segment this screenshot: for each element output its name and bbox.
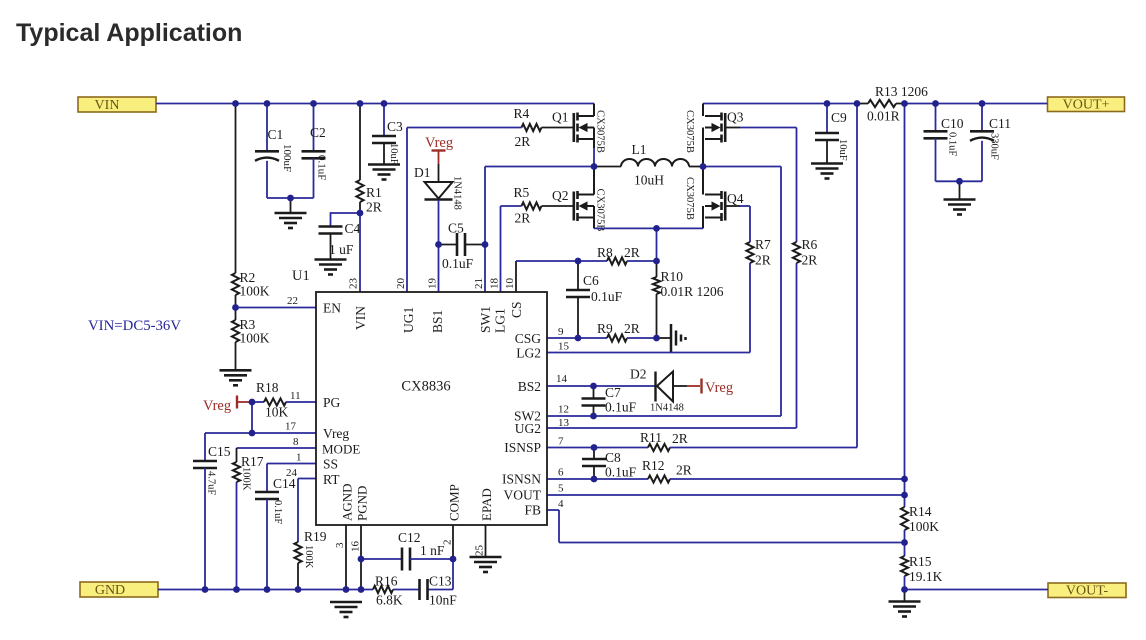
wire Vreg pin17 net bbox=[205, 402, 316, 433]
svg-text:MODE: MODE bbox=[322, 442, 360, 457]
resistor R5 bbox=[522, 202, 542, 209]
svg-text:PGND: PGND bbox=[355, 486, 370, 521]
svg-text:1: 1 bbox=[296, 452, 302, 464]
svg-text:R8: R8 bbox=[597, 245, 613, 260]
capacitor C8 bbox=[593, 448, 595, 460]
svg-text:0.01R 1206: 0.01R 1206 bbox=[661, 284, 724, 299]
svg-text:13: 13 bbox=[558, 417, 570, 429]
ground below C3 bbox=[368, 163, 400, 166]
svg-text:VIN: VIN bbox=[95, 98, 120, 113]
svg-text:2: 2 bbox=[442, 540, 454, 546]
wire VIN rail bbox=[156, 103, 594, 105]
svg-text:16: 16 bbox=[350, 541, 362, 553]
terminal VOUT- bbox=[1048, 583, 1126, 598]
ground below AGND bbox=[330, 601, 362, 604]
svg-text:0.01R: 0.01R bbox=[867, 109, 900, 124]
svg-text:2R: 2R bbox=[515, 134, 531, 149]
svg-text:R11: R11 bbox=[640, 430, 662, 445]
svg-text:VIN=DC5-36V: VIN=DC5-36V bbox=[88, 318, 181, 334]
svg-text:C2: C2 bbox=[310, 125, 326, 140]
svg-text:CX3075B: CX3075B bbox=[684, 177, 695, 220]
wire SS pin1 net bbox=[267, 464, 316, 493]
ground below C9 bbox=[811, 162, 843, 165]
resistor R7 bbox=[749, 206, 751, 242]
svg-text:D1: D1 bbox=[414, 165, 431, 180]
svg-text:EN: EN bbox=[323, 301, 341, 316]
svg-text:1N4148: 1N4148 bbox=[650, 403, 684, 414]
svg-text:R14: R14 bbox=[909, 504, 932, 519]
wire C1-C2 ground link bbox=[267, 197, 314, 199]
svg-text:14: 14 bbox=[556, 373, 568, 385]
svg-text:VOUT-: VOUT- bbox=[1066, 583, 1109, 598]
svg-text:23: 23 bbox=[348, 278, 360, 290]
svg-text:BS2: BS2 bbox=[518, 379, 541, 394]
svg-text:Q1: Q1 bbox=[552, 110, 569, 125]
svg-text:100K: 100K bbox=[240, 284, 270, 299]
svg-text:Q3: Q3 bbox=[727, 110, 744, 125]
wire VOUT+ rail bbox=[703, 103, 1048, 105]
svg-text:19.1K: 19.1K bbox=[909, 569, 943, 584]
svg-text:11: 11 bbox=[290, 390, 301, 402]
inductor L1 10uH bbox=[594, 166, 621, 168]
svg-text:R1: R1 bbox=[366, 185, 382, 200]
resistor R16 6.8K bbox=[373, 586, 393, 593]
resistor R6 bbox=[796, 128, 798, 243]
svg-text:18: 18 bbox=[489, 278, 501, 290]
svg-text:PG: PG bbox=[323, 395, 341, 410]
wire GND rail bbox=[158, 559, 453, 590]
svg-text:LG2: LG2 bbox=[516, 346, 541, 361]
wire UG1 net pin20 bbox=[407, 128, 522, 293]
svg-text:10K: 10K bbox=[265, 405, 289, 420]
resistor R13 0.01R 1206 bbox=[857, 103, 868, 105]
capacitor C7 bbox=[593, 386, 595, 399]
svg-text:R19: R19 bbox=[304, 529, 327, 544]
svg-text:10uF: 10uF bbox=[388, 143, 399, 165]
transistor Q4 CX3075B bbox=[705, 191, 725, 221]
wire VOUT- rail bbox=[905, 589, 1049, 591]
svg-text:C10: C10 bbox=[941, 116, 964, 131]
wire AGND pin3 bbox=[345, 525, 347, 590]
svg-text:0.1uF: 0.1uF bbox=[605, 465, 637, 480]
wire shunt top link bbox=[656, 228, 658, 261]
svg-text:FB: FB bbox=[524, 503, 541, 518]
svg-text:8: 8 bbox=[293, 436, 299, 448]
svg-text:0.1uF: 0.1uF bbox=[947, 132, 958, 156]
capacitor C15 bbox=[204, 433, 206, 461]
svg-text:100K: 100K bbox=[240, 331, 270, 346]
svg-text:C6: C6 bbox=[583, 273, 599, 288]
resistor R11 bbox=[648, 444, 670, 451]
capacitor C13 10nF bbox=[418, 579, 421, 600]
svg-text:RT: RT bbox=[323, 472, 340, 487]
wire LG1 net pin18 bbox=[501, 206, 522, 292]
svg-text:6.8K: 6.8K bbox=[376, 593, 403, 608]
svg-text:Vreg: Vreg bbox=[203, 398, 231, 414]
transistor Q1 CX3075B bbox=[574, 113, 594, 143]
svg-text:C12: C12 bbox=[398, 530, 421, 545]
svg-text:2R: 2R bbox=[802, 253, 818, 268]
wire D1 to BS1 node bbox=[438, 200, 440, 245]
svg-text:20: 20 bbox=[395, 278, 407, 290]
svg-text:Typical Application: Typical Application bbox=[16, 19, 242, 47]
svg-text:VOUT: VOUT bbox=[504, 488, 542, 503]
svg-text:2R: 2R bbox=[672, 431, 688, 446]
svg-text:10nF: 10nF bbox=[429, 593, 457, 608]
svg-text:R4: R4 bbox=[514, 106, 530, 121]
svg-text:UG2: UG2 bbox=[515, 421, 541, 436]
wire ISNSP pin7 net bbox=[547, 447, 648, 449]
svg-text:100K: 100K bbox=[241, 467, 252, 491]
wire MODE pin8 net bbox=[237, 447, 317, 449]
wire FB pin4 net bbox=[547, 510, 905, 543]
svg-text:Q4: Q4 bbox=[727, 191, 744, 206]
svg-text:ISNSN: ISNSN bbox=[502, 472, 541, 487]
capacitor C6 bbox=[577, 261, 579, 290]
svg-text:AGND: AGND bbox=[340, 483, 355, 521]
svg-text:C7: C7 bbox=[605, 385, 621, 400]
wire CS pin10 net bbox=[515, 261, 517, 292]
capacitor C11 330uF bbox=[981, 104, 983, 132]
svg-text:0.1uF: 0.1uF bbox=[316, 155, 328, 180]
svg-text:R16: R16 bbox=[375, 574, 398, 589]
resistor R14 100K bbox=[904, 495, 906, 507]
wire ISNSN pin6 net bbox=[547, 478, 648, 480]
ground below R15 bbox=[904, 590, 906, 602]
resistor R2 bbox=[235, 104, 237, 274]
transistor Q3 CX3075B bbox=[705, 113, 725, 143]
capacitor C3 bbox=[383, 104, 385, 137]
svg-text:6: 6 bbox=[558, 467, 564, 479]
svg-text:LG1: LG1 bbox=[493, 308, 508, 333]
svg-text:VOUT+: VOUT+ bbox=[1063, 97, 1110, 112]
svg-text:2R: 2R bbox=[755, 253, 771, 268]
svg-text:Vreg: Vreg bbox=[705, 380, 733, 396]
svg-text:100K: 100K bbox=[909, 519, 939, 534]
svg-text:SW1: SW1 bbox=[478, 306, 493, 333]
wire COMP pin2 bbox=[452, 525, 454, 559]
svg-text:3: 3 bbox=[334, 542, 346, 548]
resistor R10 0.01R bbox=[656, 261, 658, 277]
svg-text:10uF: 10uF bbox=[837, 139, 848, 161]
diode D2 1N4148 bbox=[654, 372, 656, 402]
svg-text:10: 10 bbox=[504, 278, 516, 290]
svg-text:1 uF: 1 uF bbox=[329, 242, 354, 257]
svg-text:CX3075B: CX3075B bbox=[595, 189, 606, 232]
svg-text:2R: 2R bbox=[515, 211, 531, 226]
svg-text:4: 4 bbox=[558, 498, 564, 510]
svg-text:5: 5 bbox=[558, 483, 564, 495]
svg-text:D2: D2 bbox=[630, 367, 647, 382]
svg-text:15: 15 bbox=[558, 341, 570, 353]
svg-text:R7: R7 bbox=[755, 237, 771, 252]
svg-text:C11: C11 bbox=[989, 116, 1011, 131]
svg-text:C15: C15 bbox=[208, 444, 231, 459]
wire PGND pin16 bbox=[360, 525, 362, 590]
svg-text:1N4148: 1N4148 bbox=[452, 176, 463, 210]
transistor Q2 CX3075B bbox=[574, 191, 594, 221]
ground below R3 bbox=[220, 369, 252, 372]
wire UG2 pin13 net bbox=[547, 427, 797, 429]
svg-text:330uF: 330uF bbox=[989, 133, 1000, 160]
svg-text:CX3075B: CX3075B bbox=[684, 110, 695, 153]
svg-text:10uH: 10uH bbox=[634, 173, 664, 188]
svg-text:R9: R9 bbox=[597, 321, 613, 336]
svg-text:Vreg: Vreg bbox=[425, 135, 453, 151]
svg-text:C9: C9 bbox=[831, 110, 847, 125]
capacitor C14 bbox=[255, 491, 279, 494]
op-amp U1 CX8836 IC body bbox=[316, 292, 547, 525]
svg-text:R15: R15 bbox=[909, 554, 932, 569]
svg-text:12: 12 bbox=[558, 404, 569, 416]
svg-text:Vreg: Vreg bbox=[323, 426, 349, 441]
svg-text:R18: R18 bbox=[256, 380, 279, 395]
svg-text:19: 19 bbox=[427, 278, 439, 290]
terminal VOUT+ bbox=[1048, 97, 1125, 112]
svg-text:COMP: COMP bbox=[447, 484, 462, 521]
diode D1 1N4148 bbox=[438, 164, 440, 182]
wire VOUT sense column bbox=[904, 104, 906, 496]
svg-text:0.1uF: 0.1uF bbox=[442, 256, 474, 271]
terminal VIN bbox=[78, 97, 156, 112]
svg-text:CSG: CSG bbox=[515, 331, 542, 346]
svg-text:EPAD: EPAD bbox=[479, 488, 494, 521]
svg-text:2R: 2R bbox=[624, 321, 640, 336]
resistor R8 bbox=[578, 260, 607, 262]
svg-text:9: 9 bbox=[558, 326, 564, 338]
ground below C4 bbox=[315, 258, 347, 261]
resistor R19 100K bbox=[294, 542, 301, 563]
svg-text:C3: C3 bbox=[387, 119, 403, 134]
ground below C10 C11 bbox=[959, 181, 961, 199]
svg-text:C13: C13 bbox=[429, 574, 452, 589]
svg-text:R12: R12 bbox=[642, 458, 665, 473]
svg-text:VIN: VIN bbox=[353, 306, 368, 330]
svg-text:ISNSP: ISNSP bbox=[504, 440, 541, 455]
wire EN net bbox=[236, 307, 317, 309]
svg-text:21: 21 bbox=[473, 278, 485, 289]
terminal GND bbox=[80, 582, 158, 597]
svg-text:GND: GND bbox=[95, 583, 125, 598]
junction dots bbox=[232, 100, 239, 107]
svg-text:CX3075B: CX3075B bbox=[595, 110, 606, 153]
svg-text:24: 24 bbox=[286, 467, 298, 479]
svg-text:R13 1206: R13 1206 bbox=[875, 84, 928, 99]
svg-text:100K: 100K bbox=[303, 545, 314, 569]
power Vreg at D2 bbox=[687, 385, 700, 387]
ground below C1 C2 bbox=[290, 198, 292, 213]
svg-text:2R: 2R bbox=[676, 463, 692, 478]
wire pin23 VIN net bbox=[359, 213, 361, 292]
ground right of R9 rotated bbox=[657, 337, 671, 339]
svg-text:CS: CS bbox=[509, 301, 524, 318]
wire Q2-Q4 source rail bbox=[594, 227, 703, 229]
svg-text:17: 17 bbox=[285, 421, 297, 433]
resistor R17 100K bbox=[236, 448, 238, 462]
capacitor C10 bbox=[935, 104, 937, 132]
svg-text:UG1: UG1 bbox=[401, 307, 416, 333]
svg-text:2R: 2R bbox=[624, 245, 640, 260]
resistor R3 bbox=[235, 308, 237, 321]
svg-text:R10: R10 bbox=[661, 269, 684, 284]
svg-text:C5: C5 bbox=[448, 221, 464, 236]
capacitor C4 bbox=[331, 213, 361, 227]
svg-text:R5: R5 bbox=[514, 185, 530, 200]
capacitor C9 bbox=[826, 104, 828, 134]
resistor R15 19.1K bbox=[904, 543, 906, 557]
wire RT pin24 net bbox=[298, 479, 316, 543]
resistor R1 bbox=[359, 104, 361, 181]
wire SW2 pin12 net bbox=[547, 167, 781, 417]
svg-text:R6: R6 bbox=[802, 237, 818, 252]
svg-text:C4: C4 bbox=[345, 221, 361, 236]
capacitor C12 1nF bbox=[361, 558, 402, 560]
wire C10-C11 ground link bbox=[936, 180, 983, 182]
svg-text:0.1uF: 0.1uF bbox=[591, 289, 623, 304]
svg-text:25: 25 bbox=[474, 545, 486, 557]
svg-text:Q2: Q2 bbox=[552, 188, 569, 203]
svg-text:22: 22 bbox=[287, 295, 298, 307]
capacitor C5 bbox=[439, 244, 458, 246]
svg-text:2R: 2R bbox=[366, 200, 382, 215]
svg-text:BS1: BS1 bbox=[430, 310, 445, 333]
wire VOUT pin5 net bbox=[547, 494, 905, 496]
svg-text:7: 7 bbox=[558, 436, 564, 448]
wire EPAD pin25 bbox=[485, 525, 487, 557]
svg-text:0.1uF: 0.1uF bbox=[605, 400, 637, 415]
svg-text:SS: SS bbox=[323, 457, 338, 472]
wire pin19 BS1 bbox=[438, 245, 440, 293]
resistor R12 bbox=[648, 475, 670, 482]
svg-text:C1: C1 bbox=[268, 127, 284, 142]
wire CSG pin9 bbox=[547, 337, 578, 339]
wire LG2 pin15 net bbox=[547, 352, 750, 354]
resistor R4 bbox=[522, 124, 542, 131]
wire pin21 SW1 net bbox=[485, 167, 594, 293]
capacitor C1 bbox=[266, 104, 268, 152]
svg-text:U1: U1 bbox=[292, 268, 310, 284]
wire Q3 gate to R6 bbox=[725, 127, 740, 129]
resistor R18 10K bbox=[252, 401, 264, 403]
svg-text:L1: L1 bbox=[632, 142, 647, 157]
wire Q4 gate to R7 bbox=[725, 205, 740, 207]
svg-text:4.7uF: 4.7uF bbox=[206, 471, 217, 495]
wire BS2 pin14 net bbox=[547, 385, 655, 387]
svg-text:C8: C8 bbox=[605, 450, 621, 465]
svg-text:100uF: 100uF bbox=[281, 144, 293, 172]
svg-text:0.1uF: 0.1uF bbox=[272, 500, 283, 524]
svg-text:CX8836: CX8836 bbox=[401, 379, 450, 395]
resistor R9 bbox=[578, 337, 607, 339]
ground below EPAD bbox=[470, 556, 502, 559]
capacitor C2 bbox=[313, 104, 315, 152]
